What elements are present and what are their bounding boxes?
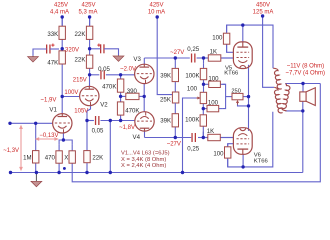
wire V2 grid to node 100V	[62, 96, 79, 98]
svg-text:100K: 100K	[185, 72, 199, 79]
wire lower 100K bottom lead	[202, 132, 204, 138]
wire feedback line from output to X resistor	[72, 84, 320, 182]
ground symbol main bus	[31, 173, 42, 187]
capacitor 0,05 lower coupling	[92, 116, 104, 134]
node 450V supply	[261, 14, 264, 17]
svg-text:10 mA: 10 mA	[148, 9, 165, 15]
node V4 grid leak tap	[119, 119, 122, 122]
wire V4 cathode to 390 node	[143, 96, 145, 111]
svg-text:33K: 33K	[47, 31, 58, 38]
triode V2 L63 phase splitter	[80, 86, 109, 108]
svg-text:~1,3V: ~1,3V	[3, 148, 19, 154]
svg-text:V3: V3	[133, 56, 141, 63]
resistor 100K V6 grid leak	[185, 109, 206, 138]
svg-text:~1,9V: ~1,9V	[41, 97, 57, 103]
svg-text:22K: 22K	[75, 57, 86, 64]
node 390 right	[143, 95, 146, 98]
ground symbol decoupling cap 1	[28, 56, 39, 62]
svg-text:1M: 1M	[23, 154, 31, 161]
wire 450V supply to transformer centre tap	[263, 16, 274, 87]
resistor 470K V4 grid leak	[117, 96, 139, 120]
triode V3 L63 driver	[133, 56, 154, 84]
svg-text:KT66: KT66	[254, 158, 269, 164]
transformer primary winding upper	[273, 68, 281, 89]
wire speaker bottom lead to ground bus	[302, 101, 304, 172]
resistor 100 V5 screen stopper	[212, 25, 230, 52]
wire V2 anode lead	[89, 75, 91, 87]
wire secondary bottom to speaker	[285, 110, 303, 112]
wire 425V supply column 1	[61, 17, 63, 27]
resistor 470K V3 grid leak	[102, 75, 124, 97]
wire speaker top lead	[302, 84, 304, 92]
node 100V V1 anode	[61, 95, 64, 98]
wire upper signal line V3 anode to 0.25 cap	[144, 57, 190, 59]
wire V6 screen grid lead	[228, 144, 234, 146]
node 425V supply 3	[156, 15, 159, 18]
svg-text:25K: 25K	[160, 96, 171, 103]
svg-text:105V: 105V	[74, 109, 88, 115]
wire V4 grid return to ground bus	[109, 121, 111, 173]
svg-text:~1,8V: ~1,8V	[119, 125, 135, 131]
svg-text:22K: 22K	[75, 31, 86, 38]
wire joining 100 ohm resistors right ends	[222, 84, 225, 108]
svg-text:X = 3,4K (8 Ohm): X = 3,4K (8 Ohm)	[121, 157, 166, 163]
node 390 left	[119, 95, 122, 98]
svg-text:425V: 425V	[149, 2, 163, 8]
resistor 22K upper V2 supply	[75, 17, 93, 49]
node 1M ground	[35, 171, 38, 174]
transformer secondary winding	[282, 84, 290, 111]
wire V1 cathode to X resistor	[63, 140, 72, 144]
svg-text:100: 100	[187, 85, 198, 92]
wire ground bus	[11, 172, 303, 174]
wire V1 cathode branch	[59, 133, 63, 144]
svg-text:X: X	[64, 154, 68, 161]
wire V2 anode node 215V to coupling cap	[90, 74, 100, 76]
node 1M tap	[34, 122, 37, 125]
svg-text:~7,7V (4 Ohm): ~7,7V (4 Ohm)	[286, 71, 326, 77]
pentode V5 KT66 output	[224, 42, 252, 77]
svg-text:~27V: ~27V	[167, 141, 181, 147]
svg-text:0,05: 0,05	[92, 127, 104, 134]
wire KT66 cathode bus V5 to V6	[248, 65, 250, 131]
svg-text:390: 390	[127, 88, 138, 95]
resistor 22K V2 cathode load	[84, 151, 90, 173]
resistor 100K V5 grid leak	[185, 64, 206, 85]
wire upper 100K top lead	[203, 58, 205, 64]
resistor 25K driver supply	[160, 92, 179, 103]
svg-text:425V: 425V	[54, 2, 68, 8]
wire lower coupling cap to V4 grid	[101, 120, 135, 122]
wire upper 100K bottom to balance pot	[203, 75, 205, 92]
wire transformer secondary top to speaker and feedback	[285, 83, 320, 85]
node 470 ground	[57, 171, 60, 174]
node V5 anode rail	[241, 23, 244, 26]
capacitor 0,25 upper coupling	[187, 46, 199, 62]
wire 450V rail	[227, 25, 273, 68]
capacitor 0,25 lower coupling	[187, 133, 199, 153]
capacitor 8uF decoupling with polarity	[47, 44, 55, 54]
wire hum pot wiper to ground bus	[183, 98, 199, 173]
svg-text:4,4 mA: 4,4 mA	[50, 9, 69, 15]
wire 425V supply column 2	[89, 17, 91, 27]
svg-text:425V: 425V	[81, 2, 95, 8]
wire V3 cathode to 390 node	[143, 83, 145, 96]
node 215V V2 anode	[88, 73, 91, 76]
resistor 39K V4 anode load	[160, 103, 178, 138]
svg-text:100: 100	[208, 76, 219, 83]
svg-text:39K: 39K	[160, 72, 171, 79]
svg-text:100: 100	[212, 35, 223, 42]
node 320V	[61, 47, 64, 50]
wire input to V1 grid	[10, 122, 53, 124]
svg-text:1K: 1K	[210, 48, 217, 55]
wire lower 0.25 cap to 1K	[198, 137, 208, 139]
node 250 wiper	[247, 104, 250, 107]
wire V2 cathode down to 22K	[87, 106, 91, 151]
node 250 right	[247, 95, 250, 98]
svg-text:100K: 100K	[185, 116, 199, 123]
resistor 33K V1 anode supply	[47, 17, 65, 49]
capacitor 0,05 upper coupling	[98, 66, 110, 79]
wire V4 anode to lower signal line	[144, 131, 146, 138]
measure arrow ~1,3V input level	[19, 125, 23, 172]
svg-text:~27V: ~27V	[170, 50, 184, 56]
wire V6 anode and screen to transformer primary bottom	[228, 112, 273, 167]
resistor 100 bias feed lower	[203, 100, 222, 112]
wire V5 anode to 450V rail	[242, 25, 244, 42]
resistor 1K V5 grid stopper	[204, 48, 234, 61]
node lower 39K	[174, 136, 177, 139]
wire 250 pot wiper to cathode bus	[238, 102, 249, 106]
node stray dot	[63, 167, 66, 170]
node V3 grid leak tap	[119, 73, 122, 76]
node input terminal	[8, 122, 11, 125]
svg-text:47K: 47K	[47, 60, 58, 67]
resistor X feedback	[64, 144, 75, 163]
wire balance pot bottom to lower 100K	[202, 104, 204, 109]
wire coupling cap to V3 grid	[106, 74, 135, 76]
node upper 39K	[174, 56, 177, 59]
node V4 grid return	[109, 119, 112, 122]
svg-text:320V: 320V	[65, 48, 79, 54]
node V2 cathode	[85, 119, 88, 122]
wire upper 1K to V5 grid	[221, 57, 234, 59]
node wiper ground	[181, 171, 184, 174]
wire 250 pot left lead	[226, 96, 232, 98]
svg-text:~2.0V: ~2.0V	[120, 66, 136, 72]
node upper 100K	[202, 56, 205, 59]
node V6 anode	[241, 165, 244, 168]
svg-text:39K: 39K	[160, 117, 171, 124]
node lower 100K	[202, 136, 205, 139]
ground symbol decoupling cap 2	[113, 55, 124, 61]
node 425V supply 2	[88, 15, 91, 18]
wire 250 pot right lead to cathode bus	[243, 96, 249, 98]
node filtered supply 2	[88, 47, 91, 50]
potentiometer 250 cathode bias	[231, 89, 243, 105]
svg-text:0,05: 0,05	[98, 66, 110, 73]
svg-text:100: 100	[213, 150, 224, 157]
wire V5 screen grid lead	[227, 43, 234, 52]
node V1 cathode	[62, 138, 65, 141]
svg-text:215V: 215V	[73, 77, 87, 83]
potentiometer 100 hum balance	[187, 85, 207, 103]
wire lower 1K to V6 grid	[221, 137, 234, 139]
wire V3 anode to upper signal line ~27V	[143, 58, 145, 64]
svg-text:22K: 22K	[92, 154, 103, 161]
svg-text:V4: V4	[133, 134, 141, 141]
speaker	[300, 88, 316, 106]
wire lower signal line V4 anode to 0.25 cap	[145, 137, 192, 139]
svg-text:5,3 mA: 5,3 mA	[78, 9, 97, 15]
resistor 100 bias feed upper	[204, 76, 226, 88]
svg-text:470K: 470K	[102, 84, 116, 91]
resistor 390 common cathode	[121, 88, 145, 99]
measure arrow -0,13V grid bias	[35, 137, 59, 141]
resistor 22K V2 anode load	[75, 49, 93, 75]
resistor 470 V1 cathode bias	[45, 144, 63, 172]
node 425V supply 1	[61, 15, 64, 18]
svg-text:0,25: 0,25	[187, 46, 199, 53]
resistor 1K V6 grid stopper	[203, 128, 233, 141]
resistor 100 V6 screen stopper	[213, 144, 231, 167]
resistor 39K V3 anode load	[160, 58, 178, 92]
wire V2 cathode node to lower coupling cap	[87, 120, 94, 122]
capacitor 8uF decoupling 2 with polarity	[97, 44, 104, 54]
resistor 1M grid leak	[23, 123, 39, 172]
svg-text:KT66: KT66	[224, 71, 239, 77]
node ground bus left terminal	[9, 171, 12, 174]
node grid return ground	[109, 171, 112, 174]
svg-text:470: 470	[45, 154, 56, 161]
pentode V6 KT66 output	[233, 128, 268, 165]
node 22K ground	[85, 171, 88, 174]
svg-text:0,25: 0,25	[187, 146, 199, 153]
triode V1 L63 input stage	[49, 107, 72, 133]
svg-text:X = 2,4K (4 Ohm): X = 2,4K (4 Ohm)	[121, 163, 166, 169]
svg-text:V1...V4 L63 (=6J5): V1...V4 L63 (=6J5)	[121, 151, 170, 157]
wire 425V bus for driver stage	[157, 17, 172, 95]
svg-text:100: 100	[208, 100, 219, 107]
node bias lower	[202, 107, 205, 110]
resistor 47K V1 anode load	[47, 49, 65, 67]
svg-text:V2: V2	[100, 102, 108, 109]
svg-text:−0,13V: −0,13V	[39, 133, 58, 139]
wire decoupling cap2 leads	[90, 48, 101, 50]
svg-text:100V: 100V	[64, 90, 78, 96]
node speaker top	[301, 82, 304, 85]
wire upper 0.25 cap to 1K	[197, 57, 208, 59]
svg-text:1K: 1K	[207, 128, 214, 135]
transformer primary winding lower	[274, 87, 282, 113]
svg-text:125 mA: 125 mA	[253, 9, 274, 15]
svg-text:V1: V1	[49, 107, 57, 114]
wire decoupling cap1 to ground	[33, 49, 47, 56]
svg-text:470K: 470K	[125, 107, 139, 114]
svg-text:450V: 450V	[256, 2, 270, 8]
node bias upper	[202, 83, 205, 86]
wire V1 anode to 47K and V2 grid	[61, 66, 63, 114]
svg-text:~11V (8 Ohm): ~11V (8 Ohm)	[287, 64, 324, 70]
node speaker bottom	[301, 109, 304, 112]
triode V4 L63 driver	[133, 112, 155, 141]
svg-text:250: 250	[231, 89, 241, 95]
